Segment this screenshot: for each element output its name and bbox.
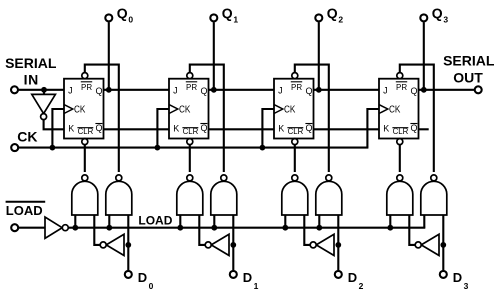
- CLR active-low bubble FF3: [397, 139, 403, 145]
- svg-text:Q: Q: [411, 123, 418, 133]
- NAND gate U1A (drives CLR): [177, 175, 203, 215]
- svg-text:CK: CK: [17, 128, 37, 144]
- wire: LOAD bus to U0B left input: [108, 215, 110, 228]
- wire: clock bus up to CK of FF0: [52, 109, 64, 148]
- wire: Q2 output up to terminal: [318, 22, 320, 90]
- label LOAD-bar: [6, 202, 46, 218]
- wire: Qbar of FF3 stub: [419, 128, 429, 130]
- NAND gate U1B (drives PR): [211, 175, 237, 215]
- terminal Q2: [315, 14, 322, 21]
- svg-text:D: D: [243, 270, 252, 285]
- label Q0: [117, 5, 134, 24]
- wire: inverter output to U2A right input: [304, 215, 310, 245]
- terminal Q1: [210, 14, 217, 21]
- svg-text:CK: CK: [284, 105, 296, 116]
- junction: LOAD bus / U2A input: [282, 225, 288, 231]
- CLR active-low bubble FF1: [187, 139, 193, 145]
- svg-text:Q: Q: [432, 5, 443, 21]
- terminal D2: [335, 271, 342, 278]
- inverter serial-in (drives K of FF0): [32, 94, 56, 119]
- svg-text:CLR: CLR: [393, 127, 409, 136]
- PR active-low bubble FF2: [292, 73, 298, 79]
- wire: D2 input line up to U2B right input: [337, 215, 339, 270]
- label D3: [453, 270, 469, 291]
- wire: inverter output to U3A right input: [409, 215, 415, 245]
- wire: NAND U1B output up over top to PR of FF1: [190, 65, 224, 172]
- svg-text:CK: CK: [389, 105, 401, 116]
- svg-text:1: 1: [233, 14, 238, 24]
- svg-text:LOAD: LOAD: [6, 203, 43, 218]
- inverter for D0 (drives U0A): [100, 234, 124, 255]
- wire: Qbar of FF0 to K of FF1: [104, 128, 170, 130]
- junction: Q output / Q3 tap: [421, 87, 427, 93]
- svg-text:J: J: [173, 86, 178, 96]
- junction: LOAD bus / U1B input: [211, 225, 217, 231]
- label D1: [243, 270, 259, 291]
- wire: Q of FF2 to J of FF3: [314, 89, 380, 91]
- wire: LOAD bus to U0A left input: [74, 215, 76, 228]
- svg-text:1: 1: [254, 281, 259, 291]
- svg-text:Q: Q: [201, 86, 208, 96]
- svg-text:D: D: [453, 270, 462, 285]
- wire: branch down into serial inverter: [43, 90, 45, 95]
- NAND gate U3A (drives CLR): [387, 175, 413, 215]
- wire: Q of FF3 to SERIAL OUT: [419, 89, 475, 91]
- PR active-low bubble FF1: [187, 73, 193, 79]
- wire: LOAD-bar terminal to inverter: [18, 227, 45, 229]
- PR active-low bubble FF3: [397, 73, 403, 79]
- inverter for D3 (drives U3A): [415, 234, 439, 255]
- junction: serial in / inverter branch: [41, 87, 47, 93]
- terminal CK: [11, 144, 18, 151]
- wire: Qbar of FF1 to K of FF2: [209, 128, 275, 130]
- wire: LOAD bus to U2A left input: [284, 215, 286, 228]
- svg-text:2: 2: [338, 14, 343, 24]
- wire: NAND U3B output up over top to PR of FF3: [400, 65, 434, 172]
- wire: clock bus up to CK of FF2: [262, 109, 274, 148]
- svg-text:Q: Q: [327, 5, 338, 21]
- NAND gate U2B (drives PR): [316, 175, 342, 215]
- wire: NAND U0B output up over top to PR of FF0: [85, 65, 119, 172]
- svg-text:PR: PR: [81, 83, 92, 92]
- terminal LOAD-bar: [11, 224, 18, 231]
- wire: clock bus up to CK of FF3: [367, 109, 379, 148]
- svg-text:OUT: OUT: [453, 70, 483, 86]
- svg-text:3: 3: [464, 281, 469, 291]
- junction: LOAD bus / U3A input: [387, 225, 393, 231]
- svg-text:PR: PR: [186, 83, 197, 92]
- label Q1: [222, 5, 239, 24]
- wire: Q of FF0 to J of FF1: [104, 89, 170, 91]
- svg-text:CK: CK: [179, 105, 191, 116]
- wire: D0 input line up to U0B right input: [127, 215, 129, 270]
- PR active-low bubble FF0: [82, 73, 88, 79]
- svg-text:IN: IN: [24, 72, 39, 88]
- wire: clock bus up to CK of FF1: [157, 109, 169, 148]
- NAND gate U2A (drives CLR): [282, 175, 308, 215]
- CLR active-low bubble FF0: [82, 139, 88, 145]
- svg-text:Q: Q: [306, 123, 313, 133]
- label Q2: [327, 5, 344, 24]
- NAND gate U0A (drives CLR): [72, 175, 98, 215]
- NAND gate U3B (drives PR): [421, 175, 447, 215]
- svg-text:Q: Q: [96, 123, 103, 133]
- wire: clock bus: [18, 147, 368, 149]
- svg-text:K: K: [383, 124, 389, 134]
- junction: D2 line / inverter input: [335, 242, 341, 248]
- svg-text:Q: Q: [201, 123, 208, 133]
- flip-flop FF3 (JK): [379, 79, 419, 139]
- wire: NAND U1A output up to CLR of FF1: [189, 145, 191, 173]
- svg-text:Q: Q: [222, 5, 233, 21]
- svg-text:J: J: [68, 86, 73, 96]
- svg-text:K: K: [173, 124, 179, 134]
- svg-text:Q: Q: [96, 86, 103, 96]
- junction: Q output / Q0 tap: [106, 87, 112, 93]
- junction: clock bus / FF0 CK: [50, 145, 56, 151]
- flip-flop FF0 (JK): [64, 79, 104, 139]
- wire: LOAD bus to U2B left input: [318, 215, 320, 228]
- terminal Q3: [420, 14, 427, 21]
- svg-text:CLR: CLR: [288, 127, 304, 136]
- wire: LOAD bus to U3A left input: [389, 215, 391, 228]
- wire: D1 input line up to U1B right input: [232, 215, 234, 270]
- wire: Q0 output up to terminal: [108, 22, 110, 90]
- svg-text:SERIAL: SERIAL: [5, 55, 57, 71]
- label D2: [348, 270, 364, 291]
- wire: SERIAL IN to J of FF0: [18, 89, 64, 91]
- svg-text:K: K: [278, 124, 284, 134]
- junction: LOAD bus / U1A input: [177, 225, 183, 231]
- svg-text:D: D: [348, 270, 357, 285]
- svg-text:K: K: [68, 124, 74, 134]
- wire: Q3 output up to terminal: [423, 22, 425, 90]
- svg-text:0: 0: [128, 14, 133, 24]
- svg-text:0: 0: [149, 281, 154, 291]
- flip-flop FF2 (JK): [274, 79, 314, 139]
- terminal Q0: [105, 14, 112, 21]
- svg-text:Q: Q: [117, 5, 128, 21]
- label D0: [138, 270, 154, 291]
- wire: NAND U0A output up to CLR of FF0: [84, 145, 86, 173]
- wire: NAND U3A output up to CLR of FF3: [399, 145, 401, 173]
- junction: LOAD bus / U0B input: [106, 225, 112, 231]
- svg-text:CLR: CLR: [78, 127, 94, 136]
- terminal D0: [125, 271, 132, 278]
- wire: D3 input line up to U3B right input: [442, 215, 444, 270]
- svg-text:J: J: [278, 86, 283, 96]
- terminal D1: [230, 271, 237, 278]
- junction: D0 line / inverter input: [125, 242, 131, 248]
- svg-text:J: J: [383, 86, 388, 96]
- inverter for D1 (drives U1A): [205, 234, 229, 255]
- NAND gate U0B (drives PR): [106, 175, 132, 215]
- wire: serial inverter output to K of FF0: [44, 120, 64, 130]
- junction: clock bus / FF2 CK: [260, 145, 266, 151]
- svg-text:SERIAL: SERIAL: [443, 52, 495, 68]
- svg-text:PR: PR: [291, 83, 302, 92]
- svg-text:CLR: CLR: [183, 127, 199, 136]
- junction: D1 line / inverter input: [230, 242, 236, 248]
- junction: LOAD bus / U2B input: [316, 225, 322, 231]
- wire: Qbar of FF2 to K of FF3: [314, 128, 380, 130]
- wire: Q1 output up to terminal: [213, 22, 215, 90]
- wire: inverter output to U0A right input: [94, 215, 100, 245]
- wire: Q of FF1 to J of FF2: [209, 89, 275, 91]
- inverter LOAD (generates LOAD): [45, 217, 68, 238]
- wire: inverter output to U1A right input: [199, 215, 205, 245]
- svg-text:CK: CK: [74, 105, 86, 116]
- svg-text:LOAD: LOAD: [138, 213, 172, 227]
- wire: LOAD bus to U3B left input: [423, 215, 425, 228]
- flip-flop FF1 (JK): [169, 79, 209, 139]
- inverter for D2 (drives U2A): [310, 234, 334, 255]
- wire: NAND U2B output up over top to PR of FF2: [295, 65, 329, 172]
- svg-text:D: D: [138, 270, 147, 285]
- svg-text:3: 3: [443, 14, 448, 24]
- wire: LOAD bus: [68, 227, 425, 229]
- terminal D3: [440, 271, 447, 278]
- svg-text:Q: Q: [411, 86, 418, 96]
- wire: LOAD bus to U1A left input: [179, 215, 181, 228]
- terminal SERIAL OUT: [475, 86, 482, 93]
- terminal SERIAL IN: [11, 86, 18, 93]
- junction: Q output / Q1 tap: [211, 87, 217, 93]
- svg-text:2: 2: [359, 281, 364, 291]
- svg-text:PR: PR: [396, 83, 407, 92]
- label Q3: [432, 5, 449, 24]
- wire: NAND U2A output up to CLR of FF2: [294, 145, 296, 173]
- CLR active-low bubble FF2: [292, 139, 298, 145]
- svg-text:Q: Q: [306, 86, 313, 96]
- wire: LOAD bus to U1B left input: [213, 215, 215, 228]
- junction: D3 line / inverter input: [440, 242, 446, 248]
- junction: LOAD bus / U0A input: [72, 225, 78, 231]
- junction: clock bus / FF1 CK: [155, 145, 161, 151]
- junction: Q output / Q2 tap: [316, 87, 322, 93]
